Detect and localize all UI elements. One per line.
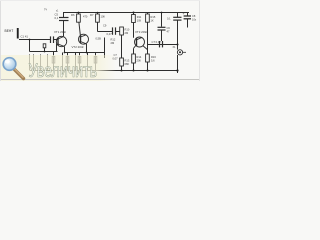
- svg-text:R7: R7: [90, 13, 94, 17]
- svg-text:1К: 1К: [151, 19, 154, 23]
- svg-text:10х: 10х: [192, 18, 197, 22]
- svg-text:R13: R13: [125, 59, 130, 63]
- svg-text:5,6: 5,6: [151, 59, 155, 63]
- svg-text:680: 680: [125, 62, 130, 66]
- svg-text:R14: R14: [137, 55, 142, 59]
- svg-text:VT2 20Ж: VT2 20Ж: [72, 45, 84, 49]
- svg-text:0,5В: 0,5В: [96, 37, 102, 41]
- svg-text:С1 41: С1 41: [21, 35, 29, 39]
- svg-text:С7 0,07: С7 0,07: [152, 40, 162, 44]
- svg-text:10К: 10К: [137, 19, 142, 23]
- svg-text:С6: С6: [167, 26, 171, 30]
- svg-text:R15: R15: [151, 15, 156, 19]
- svg-text:470: 470: [83, 15, 88, 19]
- svg-text:0,1: 0,1: [55, 16, 59, 20]
- svg-text:VT3 20Ж: VT3 20Ж: [135, 30, 147, 34]
- svg-text:0,1: 0,1: [167, 17, 171, 21]
- svg-text:10К: 10К: [101, 15, 106, 19]
- svg-text:+: +: [183, 12, 185, 16]
- svg-text:С8: С8: [192, 14, 196, 18]
- svg-text:Увеличить: Увеличить: [29, 61, 98, 81]
- svg-text:ВЕНТ: ВЕНТ: [5, 29, 14, 33]
- svg-text:VT1 20Ж: VT1 20Ж: [54, 30, 66, 34]
- svg-text:ТЧ: ТЧ: [44, 9, 48, 12]
- svg-text:С9: С9: [103, 24, 107, 28]
- svg-text:R11: R11: [137, 15, 142, 19]
- svg-text:R12: R12: [111, 38, 116, 42]
- svg-text:R6: R6: [71, 13, 75, 17]
- svg-text:20К: 20К: [137, 59, 142, 63]
- svg-text:С5: С5: [55, 13, 59, 17]
- svg-text:0,47: 0,47: [107, 32, 113, 36]
- svg-text:2М: 2М: [125, 31, 129, 35]
- svg-text:R10: R10: [125, 28, 130, 32]
- svg-text:R16: R16: [151, 55, 156, 59]
- svg-text:2М: 2М: [111, 41, 115, 45]
